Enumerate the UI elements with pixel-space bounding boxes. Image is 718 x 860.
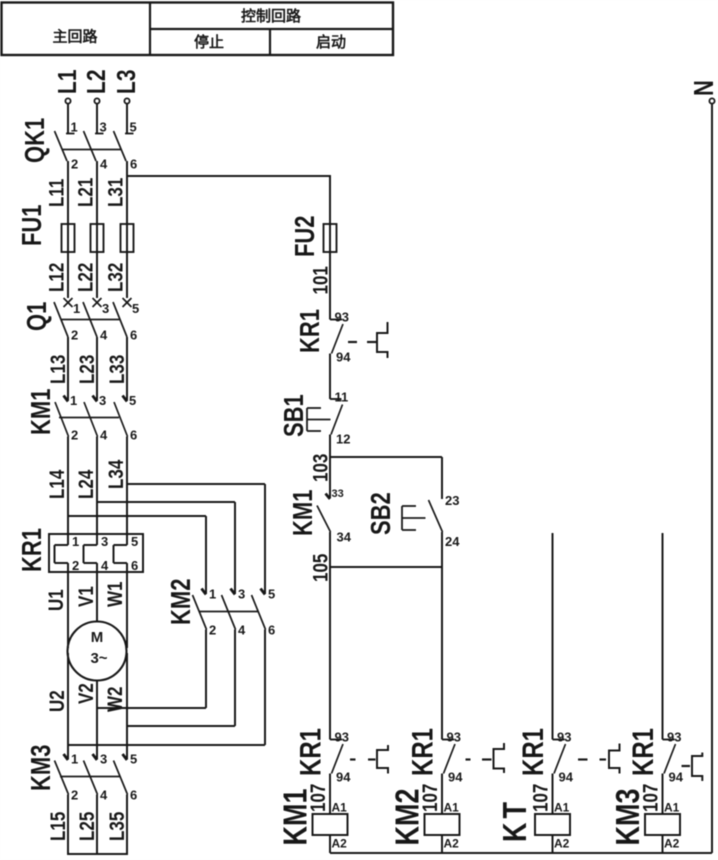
wire branch KM1 coil feed — [329, 567, 331, 740]
relay contact KR1 (NC 93-94) in KT branch — [515, 728, 619, 784]
svg-text:93: 93 — [335, 310, 349, 325]
table label main-circuit — [52, 28, 98, 46]
svg-text:3: 3 — [238, 587, 245, 602]
wire L21 — [75, 161, 98, 224]
wire L33 — [106, 337, 129, 401]
node N neutral terminal — [689, 80, 718, 103]
svg-text:34: 34 — [337, 530, 352, 545]
svg-text:3: 3 — [101, 534, 108, 549]
svg-text:2: 2 — [71, 428, 78, 443]
svg-text:12: 12 — [336, 432, 350, 447]
node L3 supply terminal — [112, 69, 142, 103]
wire L23 — [76, 337, 99, 401]
wire L34 — [105, 437, 128, 535]
KR1 heater element pole 2 — [84, 534, 110, 573]
svg-text:23: 23 — [445, 493, 459, 508]
KR1 heater element pole 1 — [55, 534, 80, 573]
contactor KM2 label — [166, 579, 197, 625]
svg-text:W1: W1 — [104, 581, 127, 607]
KM2 linkage bar — [199, 611, 258, 613]
wire L2 to QK1 — [96, 104, 98, 134]
wire KM2 pole3 bottom to U2 — [68, 630, 265, 746]
svg-text:101: 101 — [310, 266, 333, 295]
wire L24 — [75, 437, 98, 535]
svg-text:L2: L2 — [82, 69, 112, 94]
svg-text:FU2: FU2 — [290, 215, 321, 257]
contactor KM1 pole 2 — [84, 393, 108, 443]
wire L13 — [47, 337, 70, 401]
KM3 linkage bar — [60, 776, 120, 778]
wire node 107 (KM1 branch) — [307, 774, 330, 815]
svg-text:M: M — [91, 629, 104, 646]
svg-text:U2: U2 — [46, 690, 69, 712]
svg-text:V1: V1 — [75, 586, 98, 607]
wire L11 — [46, 161, 69, 224]
wire V2 — [75, 681, 98, 760]
svg-text:3~: 3~ — [90, 650, 107, 667]
wire node 107 (KM2 branch) — [419, 774, 442, 815]
table label control-circuit — [241, 7, 302, 25]
svg-text:KM3: KM3 — [609, 789, 647, 846]
svg-text:KR1: KR1 — [295, 309, 326, 353]
wire node 107 (KT branch) — [530, 774, 553, 815]
contactor KM3 pole 1 — [55, 752, 79, 803]
svg-text:QK1: QK1 — [20, 118, 51, 163]
svg-text:L34: L34 — [105, 459, 128, 489]
KM1 linkage bar — [59, 417, 119, 419]
breaker Q1 pole 3 — [113, 298, 139, 343]
svg-text:KR1: KR1 — [405, 728, 439, 776]
svg-text:5: 5 — [129, 393, 136, 408]
fuse FU1 label — [17, 204, 48, 246]
thermal relay KR1 heater box — [49, 534, 143, 572]
wire L12 — [46, 252, 69, 298]
svg-text:L35: L35 — [106, 811, 129, 841]
svg-text:93: 93 — [667, 730, 681, 745]
svg-text:1: 1 — [70, 393, 77, 408]
svg-text:3: 3 — [102, 301, 109, 316]
svg-text:A1: A1 — [554, 801, 570, 815]
svg-text:5: 5 — [132, 301, 139, 316]
svg-text:L22: L22 — [75, 263, 98, 292]
fuse FU2 — [290, 215, 337, 257]
fuse FU1 pole 3 — [121, 224, 134, 252]
svg-text:U1: U1 — [45, 589, 68, 611]
switch QK1 label — [20, 118, 51, 163]
svg-text:L3: L3 — [112, 69, 142, 94]
svg-text:1: 1 — [73, 301, 80, 316]
switch QK1 pole 2 — [84, 120, 109, 172]
wire KM2 pole2 bottom to W2 — [127, 630, 235, 727]
svg-text:6: 6 — [268, 623, 275, 638]
svg-text:L31: L31 — [105, 177, 128, 207]
breaker Q1 pole 1 — [54, 298, 80, 343]
svg-text:4: 4 — [100, 328, 108, 343]
contactor KM3 pole 3 — [114, 752, 138, 803]
table label start — [316, 33, 346, 51]
svg-text:4: 4 — [100, 157, 108, 172]
coil KM3 — [609, 789, 680, 853]
wire N line — [711, 104, 713, 853]
svg-text:A1: A1 — [332, 801, 348, 815]
svg-text:L12: L12 — [46, 263, 69, 292]
breaker Q1 pole 2 — [83, 298, 109, 343]
svg-text:L11: L11 — [46, 178, 69, 207]
svg-text:93: 93 — [335, 730, 349, 745]
svg-text:L1: L1 — [53, 69, 83, 94]
svg-text:1: 1 — [72, 534, 79, 549]
svg-text:93: 93 — [557, 730, 571, 745]
svg-text:4: 4 — [100, 428, 108, 443]
svg-text:5: 5 — [130, 752, 137, 767]
svg-text:3: 3 — [99, 393, 106, 408]
svg-text:KM2: KM2 — [389, 789, 427, 846]
wire L14 — [46, 437, 69, 535]
svg-text:KM1: KM1 — [277, 789, 315, 846]
table label stop — [194, 33, 224, 51]
wire node 107 (KM3 branch) — [640, 774, 663, 815]
svg-text:KR1: KR1 — [515, 728, 549, 776]
wire L31 — [105, 161, 128, 224]
QK1 linkage bar — [62, 149, 121, 151]
svg-text:L13: L13 — [47, 355, 70, 384]
relay contact KR1 (control, NC 93-94) — [295, 309, 388, 365]
Q1 linkage bar — [62, 319, 121, 321]
coil KM2 — [389, 789, 460, 853]
svg-text:L33: L33 — [106, 355, 129, 384]
wire branch to KM2 pole top 3 — [97, 502, 235, 594]
wire U2 — [46, 653, 69, 760]
svg-text:KR1: KR1 — [293, 728, 327, 776]
svg-text:2: 2 — [209, 623, 216, 638]
svg-text:2: 2 — [72, 558, 79, 573]
contactor KM1 main contacts label — [26, 388, 57, 435]
svg-text:5: 5 — [130, 120, 137, 135]
wire KM1 aux to node 105 — [329, 532, 331, 567]
pushbutton SB2 (start, NO 23-24) — [366, 457, 461, 567]
svg-text:A1: A1 — [444, 801, 460, 815]
fuse FU1 pole 2 — [91, 224, 104, 252]
svg-text:3: 3 — [100, 120, 107, 135]
svg-text:6: 6 — [131, 558, 138, 573]
svg-text:A2: A2 — [664, 837, 680, 851]
svg-text:1: 1 — [71, 752, 78, 767]
svg-text:L25: L25 — [76, 811, 99, 841]
wire bottom control bus — [330, 852, 712, 854]
contactor KM3 main contacts label — [26, 745, 57, 791]
svg-text:94: 94 — [336, 770, 351, 785]
wire L15 — [47, 795, 70, 855]
svg-text:11: 11 — [335, 390, 349, 405]
svg-text:5: 5 — [268, 587, 275, 602]
svg-text:4: 4 — [100, 788, 108, 803]
svg-text:6: 6 — [130, 157, 137, 172]
wire L25 — [76, 795, 99, 855]
svg-text:SB2: SB2 — [366, 492, 397, 535]
svg-text:停止: 停止 — [194, 33, 224, 51]
svg-text:94: 94 — [559, 770, 574, 785]
wire L32 — [105, 252, 128, 298]
svg-text:Q1: Q1 — [22, 302, 53, 331]
svg-text:6: 6 — [130, 788, 137, 803]
svg-text:94: 94 — [448, 770, 463, 785]
wire W2 — [104, 653, 127, 760]
star point bus — [67, 853, 128, 855]
svg-text:SB1: SB1 — [279, 394, 310, 437]
wire branch KM2 coil feed — [441, 567, 443, 740]
contactor KM2 pole 2 — [222, 587, 247, 638]
svg-text:L32: L32 — [105, 263, 128, 292]
svg-text:启动: 启动 — [316, 33, 346, 51]
svg-text:6: 6 — [130, 428, 137, 443]
wire branch KT coil feed — [552, 533, 554, 740]
node 105 — [310, 553, 442, 582]
svg-text:5: 5 — [131, 534, 138, 549]
svg-text:A2: A2 — [554, 837, 570, 851]
thermal relay KR1 heater box label — [17, 528, 48, 572]
contactor KM1 aux contact (NO 33-34) — [288, 457, 352, 545]
svg-text:2: 2 — [71, 328, 78, 343]
node L2 supply terminal — [82, 69, 112, 103]
svg-text:24: 24 — [445, 534, 460, 549]
node L1 supply terminal — [53, 69, 83, 103]
svg-text:L21: L21 — [75, 177, 98, 207]
motor M 3~ — [68, 622, 127, 681]
svg-text:2: 2 — [71, 157, 78, 172]
svg-text:V2: V2 — [75, 683, 98, 704]
svg-text:3: 3 — [100, 752, 107, 767]
wire KM2 pole1 bottom to V2 — [97, 630, 206, 709]
coil KT — [496, 798, 570, 853]
wire L22 — [75, 252, 98, 298]
KR1 heater element pole 3 — [114, 534, 139, 573]
pushbutton SB1 (stop, NC 11-12) — [279, 390, 351, 447]
wire W1 — [104, 572, 127, 648]
contactor KM3 pole 2 — [84, 752, 109, 803]
wire L1 to QK1 — [67, 104, 69, 134]
svg-text:93: 93 — [447, 730, 461, 745]
contactor KM2 pole 3 — [252, 587, 276, 638]
svg-text:4: 4 — [238, 623, 246, 638]
svg-text:33: 33 — [332, 488, 344, 500]
svg-text:KR1: KR1 — [17, 528, 48, 572]
svg-text:4: 4 — [101, 558, 109, 573]
wire node 101 — [310, 252, 333, 320]
svg-text:KM1: KM1 — [26, 388, 57, 435]
wire KR1 to SB1 — [329, 354, 331, 400]
svg-text:94: 94 — [336, 350, 351, 365]
header table frame — [2, 3, 394, 56]
svg-text:N: N — [689, 80, 718, 96]
wire branch to KM2 pole top 5 — [127, 484, 265, 594]
svg-text:A2: A2 — [332, 837, 348, 851]
wire L35 — [106, 795, 129, 855]
svg-text:1: 1 — [71, 120, 78, 135]
svg-text:A1: A1 — [664, 801, 680, 815]
contactor KM1 pole 3 — [114, 393, 137, 443]
svg-text:A2: A2 — [444, 837, 460, 851]
coil KM1 — [277, 789, 348, 853]
switch QK1 pole 3 — [114, 120, 138, 172]
node 103 — [310, 454, 442, 482]
contactor KM1 pole 1 — [55, 393, 78, 443]
switch QK1 pole 1 — [55, 120, 79, 172]
svg-text:主回路: 主回路 — [52, 28, 98, 46]
contactor KM2 pole 1 — [193, 587, 217, 638]
relay contact KR1 (NC 93-94) in KM3 branch — [625, 728, 702, 784]
svg-text:L15: L15 — [47, 811, 70, 841]
wire branch to KM2 pole top 1 — [68, 516, 206, 594]
svg-text:2: 2 — [71, 788, 78, 803]
svg-text:1: 1 — [209, 587, 216, 602]
relay contact KR1 (NC 93-94) in KM1 branch — [293, 728, 388, 784]
relay contact KR1 (NC 93-94) in KM2 branch — [405, 728, 504, 784]
wire branch KM3 coil feed — [662, 533, 664, 740]
svg-text:94: 94 — [669, 770, 684, 785]
svg-text:6: 6 — [130, 328, 137, 343]
breaker Q1 label — [22, 302, 53, 331]
svg-text:L24: L24 — [75, 469, 98, 499]
svg-text:FU1: FU1 — [17, 204, 48, 246]
svg-text:KM2: KM2 — [166, 579, 197, 625]
svg-text:KM3: KM3 — [26, 745, 57, 791]
wire V1 — [75, 572, 98, 622]
svg-text:KM1: KM1 — [288, 489, 319, 536]
svg-text:KT: KT — [496, 798, 534, 842]
svg-text:KR1: KR1 — [625, 728, 659, 776]
svg-text:L23: L23 — [76, 355, 99, 384]
wire SB1 to node 103 — [329, 435, 331, 458]
wire control feed from QK1 pole3 to FU2 — [127, 175, 330, 224]
wire L3 to QK1 — [126, 104, 128, 134]
wire U1 — [45, 572, 68, 648]
fuse FU1 pole 1 — [62, 224, 75, 252]
svg-text:控制回路: 控制回路 — [241, 7, 302, 25]
svg-text:L14: L14 — [46, 469, 69, 499]
